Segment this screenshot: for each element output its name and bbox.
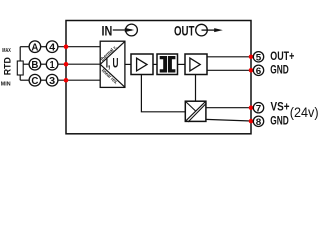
wire amp2 down to dcdc xyxy=(195,75,197,102)
wire stub C xyxy=(20,79,29,81)
wire A-4 link xyxy=(41,46,47,48)
svg-text:B: B xyxy=(31,60,38,71)
svg-text:6: 6 xyxy=(256,66,262,77)
svg-text:GND: GND xyxy=(270,115,289,127)
wire converter to amp1 xyxy=(125,63,131,65)
svg-text:(24v): (24v) xyxy=(290,105,319,120)
resistor RTD body xyxy=(17,61,23,75)
RTD bracket wire xyxy=(19,47,21,80)
svg-text:5: 5 xyxy=(256,52,262,63)
svg-text:OUT+: OUT+ xyxy=(270,51,294,63)
junction dot row C xyxy=(64,78,69,83)
converter block I,U xyxy=(99,41,124,87)
OUT symbol xyxy=(174,23,223,39)
svg-text:3: 3 xyxy=(49,76,55,87)
junction dot 5 xyxy=(249,55,254,60)
terminal circle A xyxy=(29,41,41,53)
terminal circle C xyxy=(29,74,41,86)
junction dot 6 xyxy=(249,68,254,73)
wire amp1 down to dcdc xyxy=(141,75,185,112)
outer module box xyxy=(66,21,251,134)
wire stub A xyxy=(20,46,29,48)
transformer T1 xyxy=(157,54,178,75)
junction dot 8 xyxy=(249,119,254,124)
svg-text:8: 8 xyxy=(256,117,262,128)
terminal circle 6 xyxy=(253,65,263,75)
terminal circle B xyxy=(29,58,41,70)
terminal circle 5 xyxy=(253,52,263,62)
wire row C into box xyxy=(58,79,101,81)
wire amp2 to OUT+ xyxy=(207,56,254,58)
wire amp2 to GND xyxy=(207,69,254,71)
terminal circle 1 xyxy=(46,58,58,70)
terminal circle 8 xyxy=(253,116,263,126)
svg-text:GND: GND xyxy=(270,64,289,76)
wire row A into box xyxy=(58,46,101,48)
terminal circle 4 xyxy=(46,41,58,53)
dc-dc converter xyxy=(185,101,206,122)
svg-text:MAX: MAX xyxy=(2,48,11,54)
svg-text:4: 4 xyxy=(49,42,55,53)
junction dot row A xyxy=(64,44,69,49)
svg-text:RTD: RTD xyxy=(2,57,12,75)
wire transformer to amp2 xyxy=(178,63,186,65)
svg-text:OUT: OUT xyxy=(174,23,195,39)
wire amp1 to transformer xyxy=(153,63,157,65)
IN symbol xyxy=(102,23,138,39)
wire dcdc to VS+ xyxy=(206,107,254,109)
svg-text:7: 7 xyxy=(256,103,262,114)
amplifier U2 xyxy=(185,54,207,75)
terminal circle 7 xyxy=(253,103,263,113)
wire B-1 link xyxy=(41,63,47,65)
wire C-3 link xyxy=(41,79,47,81)
svg-text:C: C xyxy=(31,76,38,87)
junction dot 7 xyxy=(249,105,254,110)
amplifier U1 xyxy=(131,54,153,75)
svg-text:1: 1 xyxy=(50,60,55,71)
svg-text:VS+: VS+ xyxy=(271,102,290,114)
junction dot row B xyxy=(64,62,69,67)
svg-text:I, U: I, U xyxy=(106,56,119,71)
svg-text:A: A xyxy=(31,42,38,53)
svg-text:MIN: MIN xyxy=(1,81,11,87)
wire row B into box xyxy=(58,63,101,65)
svg-text:IN: IN xyxy=(102,23,113,39)
wire stub B xyxy=(23,63,29,65)
terminal circle 3 xyxy=(46,74,58,86)
wire dcdc to GND8 xyxy=(206,119,254,121)
